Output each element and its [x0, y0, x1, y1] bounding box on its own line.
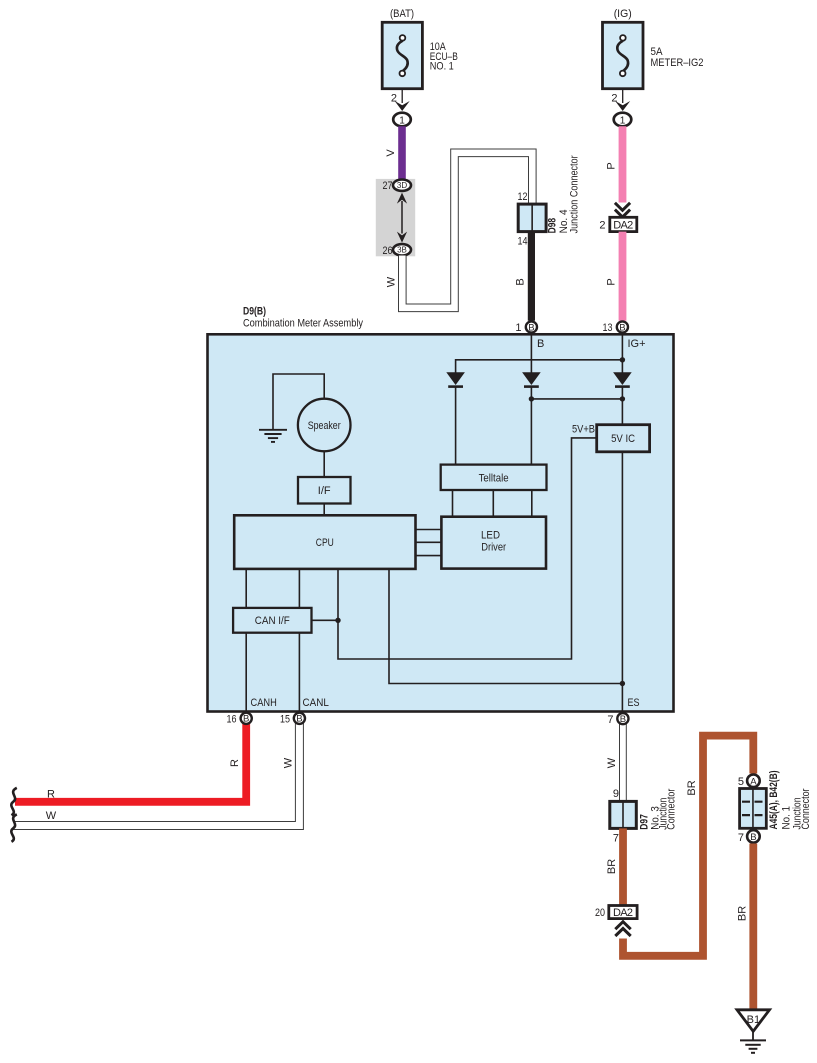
- svg-text:(IG): (IG): [614, 8, 632, 20]
- LED Driver block: [441, 517, 546, 569]
- wire IG+ column: [621, 334, 623, 372]
- svg-text:B: B: [620, 714, 626, 725]
- svg-text:W: W: [46, 810, 57, 822]
- svg-text:B: B: [243, 714, 249, 725]
- pin 15 B: [280, 713, 305, 726]
- svg-text:R: R: [47, 789, 55, 801]
- svg-text:14: 14: [518, 236, 528, 248]
- svg-text:D98: D98: [547, 218, 559, 234]
- svg-text:W: W: [385, 276, 397, 287]
- svg-text:13: 13: [603, 322, 613, 334]
- svg-text:P: P: [606, 162, 618, 169]
- wires Telltale to LED driver: [453, 490, 532, 517]
- svg-text:3B: 3B: [397, 246, 407, 255]
- svg-text:7: 7: [738, 832, 744, 844]
- svg-text:BR: BR: [606, 859, 618, 874]
- svg-text:7: 7: [613, 833, 619, 845]
- svg-text:BR: BR: [736, 906, 748, 921]
- Telltale block: [441, 465, 547, 490]
- svg-text:B: B: [537, 338, 544, 350]
- wire 5V+B to CPU: [338, 438, 597, 659]
- svg-text:26: 26: [383, 245, 393, 257]
- svg-text:NO. 1: NO. 1: [430, 61, 454, 73]
- wire D1 cathode to Telltale: [455, 387, 457, 465]
- I/F block: [298, 477, 351, 504]
- svg-text:5V+B: 5V+B: [572, 424, 595, 436]
- svg-text:B: B: [528, 322, 534, 333]
- pin 1 B: [515, 321, 537, 334]
- svg-text:Connector: Connector: [800, 788, 812, 829]
- svg-text:CANH: CANH: [251, 697, 277, 709]
- svg-text:Driver: Driver: [481, 542, 506, 554]
- pin 13 B: [603, 321, 629, 334]
- break squiggle R: [11, 788, 17, 816]
- wire top rail: [456, 360, 624, 373]
- junction ES: [620, 681, 625, 686]
- junction CAN I/F: [335, 618, 340, 623]
- svg-text:B1: B1: [747, 1014, 760, 1026]
- connector pin 1 (IG branch): [614, 113, 632, 127]
- svg-text:9: 9: [613, 788, 619, 800]
- in-line connector DA2 pin 20: [595, 906, 637, 937]
- wire P (pink) lower: [606, 232, 623, 321]
- svg-text:BR: BR: [686, 780, 698, 795]
- svg-text:15: 15: [280, 714, 290, 726]
- wire BR loop (DA2 to A45): [623, 736, 753, 956]
- svg-text:Junction Connector: Junction Connector: [568, 155, 580, 233]
- svg-text:A: A: [750, 776, 757, 787]
- ground B1: [737, 1010, 770, 1053]
- break squiggle W: [11, 814, 17, 842]
- wire CPU to CANH pin 16: [245, 569, 247, 712]
- pin 16 B: [227, 713, 252, 726]
- svg-text:7: 7: [607, 714, 613, 726]
- wire speaker to I/F: [323, 451, 325, 477]
- pin 7 B (ES): [607, 713, 628, 726]
- svg-text:ES: ES: [628, 697, 640, 709]
- svg-text:B: B: [619, 322, 625, 333]
- diode D2: [522, 372, 541, 386]
- svg-text:1: 1: [620, 115, 626, 126]
- svg-text:Speaker: Speaker: [308, 420, 341, 432]
- pin 5 A: [738, 775, 760, 789]
- wire W loop (3B to D98): [385, 153, 532, 308]
- svg-text:(BAT): (BAT): [390, 8, 414, 20]
- wire BR (A45 to ground): [736, 844, 753, 1010]
- svg-text:V: V: [385, 149, 397, 157]
- svg-text:P: P: [606, 278, 618, 285]
- svg-text:5: 5: [738, 776, 744, 788]
- wire lower rail: [531, 398, 622, 400]
- junction connector A45(A), B42(B): [740, 770, 812, 829]
- svg-text:B: B: [296, 714, 302, 725]
- svg-text:A45(A), B42(B): A45(A), B42(B): [768, 770, 780, 829]
- svg-text:METER–IG2: METER–IG2: [651, 57, 704, 69]
- svg-text:I/F: I/F: [318, 485, 331, 497]
- wire CPU to ES junction: [389, 569, 622, 684]
- svg-text:1: 1: [399, 115, 405, 126]
- svg-text:R: R: [229, 759, 241, 767]
- combination meter assembly D9(B) box: [208, 306, 674, 712]
- wire W (ES to D97): [606, 718, 623, 801]
- wire D2 cathode down: [530, 387, 532, 465]
- junction block 3D/3B: [376, 179, 415, 257]
- diode D1: [446, 372, 465, 386]
- svg-text:IG+: IG+: [628, 338, 646, 350]
- svg-text:B: B: [514, 278, 526, 285]
- svg-text:12: 12: [518, 191, 528, 203]
- junction lower rail left: [529, 396, 534, 401]
- svg-text:W: W: [606, 757, 618, 768]
- fuse ECU-B NO.1 (BAT): [382, 8, 458, 89]
- svg-text:27: 27: [383, 180, 393, 192]
- svg-text:W: W: [282, 757, 294, 768]
- wire fuse IG output pin 2: [611, 88, 630, 111]
- svg-text:B: B: [750, 832, 756, 843]
- diode D3: [613, 372, 632, 386]
- wire CPU to 5V+B junction: [312, 619, 339, 621]
- svg-text:CAN I/F: CAN I/F: [255, 615, 290, 627]
- wire R (red CAN high): [15, 718, 246, 802]
- 5V IC U1: [597, 425, 650, 452]
- svg-text:2: 2: [599, 220, 605, 232]
- wire CPU to CANL pin 15: [298, 569, 300, 712]
- ground (speaker): [259, 374, 324, 442]
- svg-text:20: 20: [595, 907, 605, 919]
- svg-text:LED: LED: [481, 530, 500, 542]
- svg-text:1: 1: [515, 322, 521, 334]
- fuse METER-IG2 (IG): [603, 8, 704, 89]
- svg-text:DA2: DA2: [613, 907, 633, 919]
- svg-text:Combination Meter Assembly: Combination Meter Assembly: [243, 318, 363, 330]
- svg-text:Telltale: Telltale: [479, 472, 509, 484]
- svg-text:CANL: CANL: [303, 697, 329, 709]
- svg-text:DA2: DA2: [613, 219, 633, 231]
- svg-text:5V IC: 5V IC: [611, 433, 635, 445]
- connector pin 1 (BAT branch): [393, 113, 411, 127]
- pin 7 B (A45): [738, 830, 760, 844]
- svg-text:D9(B): D9(B): [243, 306, 266, 318]
- junction connector D97: [610, 788, 678, 845]
- wire D3 cathode down to ES: [621, 387, 623, 712]
- in-line connector DA2 pin 2: [599, 203, 636, 232]
- svg-text:16: 16: [227, 714, 237, 726]
- CPU block: [234, 515, 415, 569]
- wire I/F to CPU: [323, 504, 325, 516]
- wire fuse BAT output pin 2: [391, 88, 410, 111]
- wire B (black, D98 to pin 1): [514, 232, 531, 321]
- wire B column to diode: [530, 334, 532, 372]
- svg-text:Connector: Connector: [666, 788, 678, 829]
- CAN I/F block: [233, 608, 311, 633]
- junction connector D98: [518, 155, 581, 247]
- bus CPU to LED driver: [416, 530, 442, 556]
- wire P (pink) upper: [606, 126, 623, 202]
- junction lower rail right: [620, 396, 625, 401]
- wire W (white CAN low): [13, 718, 299, 826]
- speaker SP1: [298, 399, 351, 452]
- svg-text:3D: 3D: [397, 181, 407, 190]
- svg-text:CPU: CPU: [316, 537, 334, 549]
- wire BR (D97 to DA2): [606, 828, 623, 905]
- wire V (violet): [385, 126, 402, 180]
- junction IG+/top rail: [620, 357, 625, 362]
